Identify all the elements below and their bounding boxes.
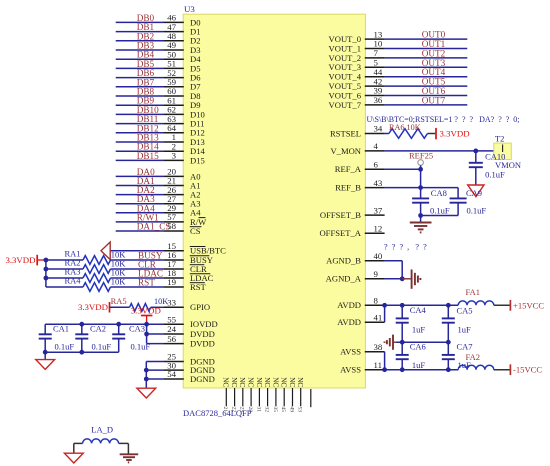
svg-text:1uF: 1uF <box>458 325 472 335</box>
earth ground AGND sideways <box>402 278 411 280</box>
pin 30 DGND <box>164 369 184 371</box>
svg-text:9: 9 <box>374 269 379 279</box>
junction REF_B <box>418 185 423 190</box>
pin 64 D12 <box>164 132 184 134</box>
wire DB1 <box>116 31 164 33</box>
pin 60 D8 <box>164 95 184 97</box>
wire DB13 <box>116 141 164 143</box>
earth ground below CA8 <box>410 222 432 224</box>
overline over LDAC <box>190 273 211 275</box>
svg-text:0.1uF: 0.1uF <box>55 342 75 352</box>
wire VOUT_3 <box>385 66 468 68</box>
pin 38 AVSS <box>365 351 385 353</box>
pin 59 D7 <box>164 86 184 88</box>
svg-text:54: 54 <box>167 369 176 379</box>
svg-text:CA1: CA1 <box>53 323 69 333</box>
junction AVSS <box>382 367 387 372</box>
pin 40 AGND_B <box>365 260 385 262</box>
wire FA1 to +15VCC <box>494 304 510 306</box>
junction CA6 bottom <box>400 367 405 372</box>
overline over BUSY <box>190 255 210 257</box>
pin 33 GPIO <box>164 306 184 308</box>
pin NC bottom 9 <box>292 388 294 406</box>
pin 48 D2 <box>164 40 184 42</box>
pin NC bottom 8 <box>283 388 285 406</box>
svg-text:12: 12 <box>374 223 383 233</box>
svg-text:3: 3 <box>172 151 177 161</box>
wire DA1_CS <box>116 230 164 232</box>
wire DA4 <box>116 212 164 214</box>
pin 47 D1 <box>164 31 184 33</box>
wire VOUT_0 <box>385 38 468 40</box>
svg-text:RSTSEL: RSTSEL <box>330 128 361 138</box>
svg-text:GPIO: GPIO <box>190 302 210 312</box>
svg-text:DVDD: DVDD <box>190 329 215 339</box>
wire DB12 <box>116 132 164 134</box>
wire DB0 <box>116 21 164 23</box>
svg-text:43: 43 <box>374 178 383 188</box>
wire rail to RA3 <box>46 277 83 279</box>
svg-text:58: 58 <box>167 221 176 231</box>
wire VOUT_2 <box>385 57 468 59</box>
wire VOUT_1 <box>385 48 468 50</box>
wire VOUT_6 <box>385 95 468 97</box>
wire RA2 to pin <box>111 268 165 270</box>
ground GND under DGND <box>137 388 156 398</box>
overline over CS <box>190 226 202 228</box>
svg-text:0.1uF: 0.1uF <box>430 206 450 216</box>
svg-text:40: 40 <box>374 251 383 261</box>
svg-text:LA_D: LA_D <box>91 425 113 435</box>
pin 5 VOUT_3 <box>365 66 385 68</box>
svg-text:REF_A: REF_A <box>335 164 362 174</box>
junction CA1 bottom <box>43 350 48 355</box>
pin 58 CS <box>164 230 184 232</box>
wire DB3 <box>116 49 164 51</box>
svg-text:AGND_A: AGND_A <box>326 274 362 284</box>
pin NC bottom 3 <box>242 388 244 406</box>
svg-text:IOVDD: IOVDD <box>190 319 218 329</box>
pin 13 VOUT_0 <box>365 38 385 40</box>
svg-text:T2: T2 <box>495 134 504 144</box>
wire R/W1 <box>116 221 164 223</box>
no-ERC marker circle on REF25 <box>418 160 424 166</box>
svg-text:V_MON: V_MON <box>330 146 361 156</box>
svg-text:NC: NC <box>247 377 255 387</box>
svg-text:10K: 10K <box>111 276 127 286</box>
wire rail to RA1 <box>46 259 83 261</box>
svg-text:NC: NC <box>288 377 296 387</box>
svg-text:4: 4 <box>374 141 379 151</box>
overline over CLR <box>190 264 205 266</box>
svg-text:CA5: CA5 <box>457 306 473 316</box>
pin 43 REF_B <box>365 187 385 189</box>
wire DB5 <box>116 67 164 69</box>
pin 55 IOVDD <box>164 323 184 325</box>
svg-text:OFFSET_A: OFFSET_A <box>319 228 361 238</box>
svg-text:0.1uF: 0.1uF <box>485 170 505 180</box>
svg-text:NC: NC <box>280 377 288 387</box>
port arrow USB/BTC <box>101 242 110 260</box>
wire stub to earth <box>420 216 422 222</box>
resistor RA6 10K <box>389 129 428 139</box>
pin 18 LDAC <box>164 277 184 279</box>
wire V_MON to T2 <box>385 150 494 152</box>
svg-text:3.3VDD: 3.3VDD <box>5 255 35 265</box>
pin 49 D3 <box>164 49 184 51</box>
svg-text:VOUT_7: VOUT_7 <box>329 100 362 110</box>
wire DA0 <box>116 175 164 177</box>
wire DA2 <box>116 194 164 196</box>
svg-text:31: 31 <box>255 407 261 413</box>
wire DA1 <box>116 185 164 187</box>
pin 3 D15 <box>164 159 184 161</box>
ferrite bead FA2 <box>458 365 494 369</box>
pin 19 RST <box>164 286 184 288</box>
wire RA6 to power <box>428 133 436 135</box>
junction DGND54 <box>144 377 149 382</box>
op-amp U3 DAC8728 chip body <box>183 14 365 388</box>
junction CA8 bottom <box>418 213 423 218</box>
pin 34 RSTSEL <box>365 133 385 135</box>
svg-text:VMON: VMON <box>495 160 521 170</box>
wire DA3 <box>116 203 164 205</box>
wire DB9 <box>116 104 164 106</box>
capacitor CA3 0.1uF <box>118 324 120 334</box>
pin 27 A3 <box>164 203 184 205</box>
svg-text:DVDD: DVDD <box>190 339 215 349</box>
wire USB/BTC pin15 <box>110 250 164 252</box>
svg-text:36: 36 <box>374 95 383 105</box>
wire rail to RA4 <box>46 286 83 288</box>
pin 62 D10 <box>164 113 184 115</box>
junction REF_A <box>418 167 423 172</box>
svg-text:AVSS: AVSS <box>340 365 361 375</box>
resistor RA5 10K <box>130 304 151 312</box>
wire REF_B <box>385 187 459 189</box>
pin 4 V_MON <box>365 150 385 152</box>
svg-text:+15VCC: +15VCC <box>513 300 544 310</box>
pin 26 A2 <box>164 194 184 196</box>
overline over RST <box>190 282 205 284</box>
svg-text:33: 33 <box>167 297 176 307</box>
svg-text:56: 56 <box>167 334 176 344</box>
wire to pin 56 <box>147 343 164 345</box>
pin 1 of T2 <box>502 145 504 153</box>
pin NC bottom 2 <box>234 388 236 406</box>
resistor RA4 10K <box>83 283 111 292</box>
junction CA7 bottom <box>446 367 451 372</box>
svg-text:CA4: CA4 <box>410 305 427 315</box>
pin 61 D9 <box>164 104 184 106</box>
resistor RA3 10K <box>83 274 111 283</box>
capacitor CA4 1uF <box>401 305 403 318</box>
wire decoupling rail <box>45 323 146 325</box>
wire rail to RA2 <box>46 268 83 270</box>
pin 42 VOUT_5 <box>365 85 385 87</box>
pin NC bottom 4 <box>250 388 252 406</box>
junction CA2 bottom <box>79 350 84 355</box>
svg-text:CA2: CA2 <box>90 323 106 333</box>
svg-text:D15: D15 <box>190 155 205 165</box>
wire AVSS38 down <box>384 352 386 370</box>
svg-text:11: 11 <box>374 360 382 370</box>
wire REF vertical <box>420 165 422 198</box>
svg-text:FA2: FA2 <box>466 352 481 362</box>
testpoint T2 body <box>494 143 512 159</box>
pin 8 AVDD <box>365 304 385 306</box>
svg-text:0.1uF: 0.1uF <box>92 342 112 352</box>
junction CA4 bottom mid <box>400 340 405 345</box>
capacitor CA2 0.1uF <box>81 324 83 334</box>
wire DGND vertical <box>145 362 147 380</box>
svg-text:28: 28 <box>247 407 253 413</box>
svg-text:NC: NC <box>263 377 271 387</box>
svg-text:1uF: 1uF <box>412 360 426 370</box>
svg-text:NC: NC <box>255 377 263 387</box>
wire stub DGND to ground <box>145 379 147 388</box>
svg-text:CA3: CA3 <box>129 323 145 333</box>
svg-text:0.1uF: 0.1uF <box>467 206 487 216</box>
wire DB4 <box>116 58 164 60</box>
svg-text:37: 37 <box>374 205 383 215</box>
pin 39 VOUT_6 <box>365 95 385 97</box>
pin 11 AVSS <box>365 369 385 371</box>
capacitor CA5 1uF <box>447 305 449 318</box>
wire AVDD41 up <box>384 305 386 322</box>
capacitor CA8 0.1uF <box>420 197 422 199</box>
svg-text:NC: NC <box>230 377 238 387</box>
junction CA2 top <box>79 322 84 327</box>
power port VMON triangle <box>468 185 484 197</box>
overline over USB <box>190 246 206 248</box>
pin NC bottom 6 <box>267 388 269 406</box>
svg-text:CA6: CA6 <box>410 342 426 352</box>
svg-text:CA8: CA8 <box>431 188 447 198</box>
pin 20 A0 <box>164 175 184 177</box>
svg-text:23: 23 <box>239 407 245 413</box>
junction IOVDD node <box>144 322 149 327</box>
svg-text:21: 21 <box>222 407 228 413</box>
pin 24 DVDD <box>164 333 184 335</box>
pin 1 D13 <box>164 141 184 143</box>
wire IOVDD vertical <box>146 324 148 343</box>
svg-text:3.3VDD: 3.3VDD <box>440 128 470 138</box>
wire LA_D left <box>74 442 83 444</box>
junction on rail RA3 <box>44 276 49 281</box>
junction DVDD24 <box>144 332 149 337</box>
wire DB11 <box>116 123 164 125</box>
pin 10 VOUT_1 <box>365 48 385 50</box>
pin 29 A4 <box>164 212 184 214</box>
svg-text:8: 8 <box>374 296 379 306</box>
pin 12 OFFSET_A <box>365 232 385 234</box>
earth ground mid rail sideways <box>393 341 396 343</box>
pin NC bottom 7 <box>275 388 277 406</box>
pin 37 OFFSET_B <box>365 214 385 216</box>
svg-text:DA1_CS: DA1_CS <box>137 222 171 232</box>
svg-text:49: 49 <box>288 407 294 413</box>
pin 57 R/W <box>164 221 184 223</box>
pin 21 A1 <box>164 185 184 187</box>
pin 16 BUSY <box>164 259 184 261</box>
wire RA1 to pin <box>111 259 165 261</box>
svg-text:3.3VDD: 3.3VDD <box>78 302 108 312</box>
junction on rail RA2 <box>44 267 49 272</box>
svg-text:AVDD: AVDD <box>337 317 361 327</box>
wire RA5 to GPIO pin <box>151 306 164 308</box>
junction CA5 bottom mid <box>446 340 451 345</box>
svg-text:AGND_B: AGND_B <box>326 256 361 266</box>
svg-text:24: 24 <box>167 324 176 334</box>
svg-text:3.3VDD: 3.3VDD <box>131 306 161 316</box>
ground GND under CA1 <box>36 360 55 370</box>
pin 6 REF_A <box>365 168 385 170</box>
pin 63 D11 <box>164 123 184 125</box>
pin 7 VOUT_2 <box>365 57 385 59</box>
svg-text:6: 6 <box>374 160 379 170</box>
wire RA4 to pin <box>111 286 165 288</box>
wire VOUT_4 <box>385 76 468 78</box>
svg-text:35: 35 <box>272 407 278 413</box>
svg-text:OUT7: OUT7 <box>422 95 446 105</box>
junction AVDD <box>382 303 387 308</box>
junction CA10 top <box>473 149 478 154</box>
wire AGND_A <box>385 278 403 280</box>
svg-text:AVDD: AVDD <box>337 300 361 310</box>
wire AGND_B <box>385 260 403 262</box>
pin 36 VOUT_7 <box>365 104 385 106</box>
pin NC bottom 1 <box>225 388 227 406</box>
svg-text:RST: RST <box>190 282 207 292</box>
wire DB15 <box>116 159 164 161</box>
pin 2 D14 <box>164 150 184 152</box>
wire AVSS rail <box>385 369 459 371</box>
svg-text:CA7: CA7 <box>457 342 473 352</box>
svg-text:-15VCC: -15VCC <box>513 365 542 375</box>
pin 52 D6 <box>164 77 184 79</box>
capacitor CA9 0.1uF <box>457 188 459 199</box>
wire to pin 54 <box>146 378 164 380</box>
svg-text:32: 32 <box>264 407 270 413</box>
svg-text:RST: RST <box>138 277 155 287</box>
pin 15 USB/BTC <box>164 250 184 252</box>
wire AVDD rail <box>385 304 459 306</box>
svg-text:CS: CS <box>190 226 201 236</box>
pin 54 DGND <box>164 378 184 380</box>
svg-text:1uF: 1uF <box>412 325 426 335</box>
svg-text:RA4: RA4 <box>65 276 82 286</box>
wire 3.3VDD to RA5 <box>110 306 130 308</box>
wire to pin 55 <box>147 323 164 325</box>
inductor LA_D <box>83 439 119 444</box>
wire stub to ground <box>44 352 46 359</box>
svg-text:FA1: FA1 <box>466 287 481 297</box>
power port +15VCC <box>509 300 511 311</box>
pin 51 D5 <box>164 67 184 69</box>
wire VOUT_7 <box>385 104 468 106</box>
svg-text:REF_B: REF_B <box>335 183 361 193</box>
resistor RA1 10K <box>83 256 111 265</box>
junction on rail RA1 <box>44 258 49 263</box>
junction AGND <box>400 276 405 281</box>
ferrite bead FA1 <box>458 301 494 305</box>
wire LA_D right <box>119 442 129 444</box>
wire RA3 to pin <box>111 277 165 279</box>
svg-text:RA6 10K: RA6 10K <box>389 123 421 132</box>
capacitor CA1 0.1uF <box>44 324 46 334</box>
svg-text:41: 41 <box>374 312 383 322</box>
pin 41 AVDD <box>365 321 385 323</box>
svg-text:U3: U3 <box>184 4 195 14</box>
capacitor CA7 1uF <box>447 342 449 355</box>
wire caps bottom to ground <box>421 215 459 217</box>
svg-text:53: 53 <box>297 407 303 413</box>
wire VOUT_5 <box>385 85 468 87</box>
svg-text:19: 19 <box>167 277 176 287</box>
wire FA2 to -15VCC <box>494 369 510 371</box>
wire 3.3VDD rail vertical <box>45 260 47 287</box>
pin 25 DGND <box>164 361 184 363</box>
wire REF_A <box>385 168 421 170</box>
power port 3.3VDD at RA6 <box>435 128 437 139</box>
wire DB14 <box>116 150 164 152</box>
svg-text:RA5: RA5 <box>111 296 127 306</box>
svg-text:34: 34 <box>374 124 383 134</box>
wire DB7 <box>116 86 164 88</box>
capacitor CA10 0.1uF <box>475 151 477 163</box>
pin 46 D0 <box>164 21 184 23</box>
pin 17 CLR <box>164 268 184 270</box>
resistor RA2 10K <box>83 265 111 274</box>
junction CA5 top <box>446 303 451 308</box>
svg-text:22: 22 <box>231 407 237 413</box>
pin NC bottom 10 <box>300 388 302 406</box>
svg-text:DB15: DB15 <box>137 151 159 161</box>
pin bottom extra stub <box>310 389 312 407</box>
svg-text:55: 55 <box>167 314 176 324</box>
overline over W of R/W <box>199 217 206 219</box>
junction DGND30 <box>144 368 149 373</box>
svg-text:NC: NC <box>271 377 279 387</box>
svg-text:38: 38 <box>374 342 383 352</box>
svg-text:OFFSET_B: OFFSET_B <box>320 210 361 220</box>
wire RSTSEL to RA6 <box>385 133 389 135</box>
pin 50 D4 <box>164 58 184 60</box>
pin 9 AGND_A <box>365 278 385 280</box>
junction CA3 top <box>116 322 121 327</box>
svg-text:CA9: CA9 <box>466 188 482 198</box>
wire caps bottom rail <box>45 351 119 353</box>
wire mid rail <box>397 341 449 343</box>
pin NC bottom 5 <box>258 388 260 406</box>
svg-text:? ? ? , ? ?: ? ? ? , ? ? <box>384 243 427 252</box>
svg-text:NC: NC <box>222 377 230 387</box>
power port -15VCC <box>509 364 511 375</box>
wire to pin 30 <box>146 369 164 371</box>
wire DB10 <box>116 113 164 115</box>
capacitor CA6 1uF <box>401 342 403 355</box>
earth ground right of LA_D <box>120 453 139 455</box>
wire to pin 25 <box>146 361 164 363</box>
pin 56 DVDD <box>164 343 184 345</box>
junction CA4 top <box>400 303 405 308</box>
svg-text:AVSS: AVSS <box>340 347 361 357</box>
svg-text:NC: NC <box>296 377 304 387</box>
pin 44 VOUT_4 <box>365 76 385 78</box>
wire DB2 <box>116 40 164 42</box>
ground GND under LA_D <box>64 453 83 463</box>
